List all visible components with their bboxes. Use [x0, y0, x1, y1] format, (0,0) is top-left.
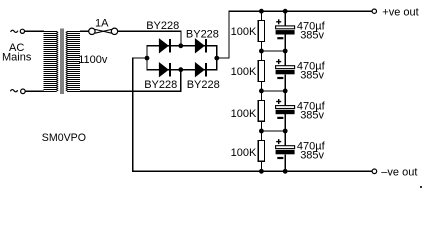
AC neutral input terminal: [10, 89, 25, 94]
junction dot rail 1 capacitor column: [283, 9, 288, 14]
junction dot AC-top node: [178, 43, 183, 48]
wire fuse to bridge AC-top node: [118, 31, 181, 46]
wire live terminal to transformer primary top: [25, 30, 44, 32]
minus polarity mark C2: [277, 77, 283, 79]
bridge bottom row wire: [146, 69, 217, 71]
bottom rail -ve bus: [132, 170, 372, 172]
rail wire node 3: [260, 90, 286, 92]
diode D2 BY228: [195, 39, 206, 52]
minus polarity mark C4: [277, 157, 283, 159]
junction dot rail 3 resistor column: [259, 89, 264, 94]
svg-text:BY228: BY228: [186, 29, 219, 41]
wire bridge AC-bottom node to secondary bottom: [80, 70, 181, 92]
top rail +ve bus: [229, 10, 373, 12]
diode D3 BY228: [159, 63, 170, 76]
svg-text:100K: 100K: [231, 66, 257, 78]
svg-text:Mains: Mains: [2, 52, 32, 64]
AC live input terminal: [11, 29, 25, 33]
diode D1 BY228: [159, 39, 170, 52]
svg-text:385v: 385v: [300, 30, 324, 42]
+ve out terminal: [372, 9, 376, 13]
speck artifact bottom right: [420, 186, 422, 188]
svg-text:100K: 100K: [231, 147, 257, 159]
bridge left rail wire: [146, 45, 148, 70]
svg-text:100K: 100K: [231, 26, 257, 38]
transformer core: [61, 28, 63, 94]
plus polarity mark C3: [276, 99, 281, 104]
svg-text:385v: 385v: [300, 150, 324, 162]
svg-text:–ve out: –ve out: [381, 166, 417, 178]
junction dot rail 2 capacitor column: [283, 49, 288, 54]
resistor R2 100K: [258, 51, 264, 91]
transformer T1 primary winding: [44, 31, 57, 91]
svg-text:1100v: 1100v: [78, 54, 108, 66]
junction dot rail 4 capacitor column: [283, 129, 288, 134]
junction dot rail 3 capacitor column: [283, 89, 288, 94]
wire secondary top to fuse: [80, 30, 89, 32]
capacitor C4 470uf 385v (polarized): [276, 131, 295, 171]
minus polarity mark C1: [277, 37, 283, 39]
rail wire node 2: [260, 50, 286, 52]
wire positive node to top bus: [217, 11, 229, 58]
plus polarity mark C2: [276, 59, 281, 64]
rail wire node 4: [260, 130, 286, 132]
junction dot bottom rail capacitor column: [283, 169, 288, 174]
wire neutral terminal to transformer primary bottom: [25, 90, 44, 92]
junction dot rail 1 resistor column: [259, 9, 264, 14]
minus polarity mark C3: [277, 117, 283, 119]
resistor R1 100K: [258, 11, 264, 51]
resistor R4 100K: [258, 131, 264, 171]
fuse F1: [89, 28, 118, 34]
capacitor C2 470uf 385v (polarized): [276, 51, 295, 91]
svg-text:+ve out: +ve out: [382, 6, 418, 18]
junction dot negative bridge node: [145, 56, 150, 61]
svg-text:100K: 100K: [231, 108, 257, 120]
capacitor C1 470uf 385v (polarized): [276, 11, 295, 51]
bridge top row wire: [146, 45, 217, 47]
diode D4 BY228: [195, 63, 206, 76]
junction dot bottom rail resistor column: [259, 169, 264, 174]
svg-text:BY228: BY228: [144, 79, 177, 91]
capacitor C3 470uf 385v (polarized): [276, 91, 295, 131]
svg-text:1A: 1A: [95, 17, 109, 29]
svg-text:BY228: BY228: [187, 79, 220, 91]
transformer T1 secondary winding: [67, 31, 80, 91]
junction dot positive bridge node: [214, 56, 219, 61]
junction dot AC-bottom node: [178, 67, 183, 72]
label AC Mains: [2, 42, 32, 64]
svg-text:385v: 385v: [300, 70, 324, 82]
plus polarity mark C4: [276, 139, 281, 144]
bridge right rail wire: [216, 45, 218, 70]
svg-text:SM0VPO: SM0VPO: [42, 132, 86, 144]
junction dot rail 2 resistor column: [259, 49, 264, 54]
junction dot rail 4 resistor column: [259, 129, 264, 134]
svg-text:385v: 385v: [300, 109, 324, 121]
plus polarity mark C1: [276, 19, 281, 24]
wire negative node to bottom bus: [133, 58, 147, 171]
-ve out terminal: [372, 169, 377, 174]
svg-text:BY228: BY228: [146, 20, 179, 32]
resistor R3 100K: [258, 91, 264, 131]
